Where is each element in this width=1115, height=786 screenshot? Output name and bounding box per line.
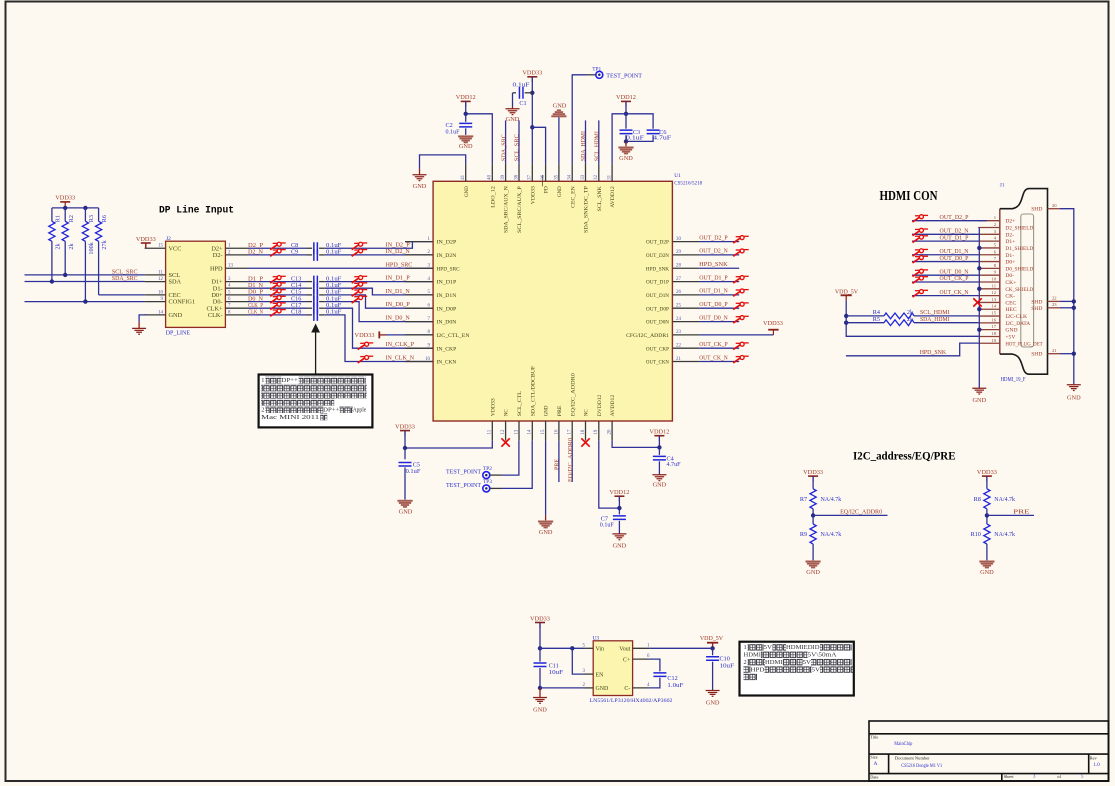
capacitor C14 0.1uF (series on D1_N)	[248, 287, 307, 289]
svg-text:AVDD12: AVDD12	[610, 186, 616, 208]
svg-text:SDA_SRC/AUX_N: SDA_SRC/AUX_N	[504, 186, 510, 233]
pin 6 D1- (J1)	[978, 254, 1000, 256]
svg-text:VDD33: VDD33	[977, 469, 997, 476]
junction shield pin8	[977, 266, 981, 270]
svg-text:11: 11	[158, 270, 163, 275]
svg-text:OUT_CK_P: OUT_CK_P	[699, 341, 728, 348]
diff-pair mark OUT_D2_P	[733, 236, 749, 243]
capacitor C7 0.1uF	[618, 508, 620, 514]
svg-text:SHD: SHD	[1031, 207, 1042, 213]
pin 6 D0- (J2 right)	[225, 301, 248, 303]
svg-text:U3: U3	[593, 636, 600, 642]
capacitor C11 10uF	[539, 648, 541, 661]
diff-pair mark OUT_D1_P	[733, 276, 749, 283]
junction rail-R3	[83, 206, 87, 210]
pin 39 SDA_SRC/AUX_N (U1 top)	[505, 164, 507, 182]
svg-text:R9: R9	[800, 531, 807, 538]
pin 6 C+	[633, 658, 650, 660]
svg-text:TEST_POINT: TEST_POINT	[606, 72, 642, 79]
pin 2 IN_D2N (U1 left)	[405, 254, 433, 256]
wire OUT_D2_P (to J1 pin1)	[912, 220, 987, 222]
svg-text:OUT_CKP: OUT_CKP	[646, 346, 669, 352]
svg-text:D2-: D2-	[1005, 232, 1014, 238]
svg-text:GND: GND	[553, 102, 567, 109]
svg-text:C18: C18	[291, 309, 301, 316]
pin 13 HPD (J2 right)	[225, 267, 248, 269]
ground (right shield bus)	[1073, 383, 1075, 385]
connector J1 HDMI_19_F outline	[999, 209, 1001, 354]
svg-text:10uF: 10uF	[720, 663, 735, 670]
svg-text:C-: C-	[624, 686, 630, 692]
junction R4	[844, 314, 848, 318]
svg-text:SDA_SNK/DC_TP: SDA_SNK/DC_TP	[584, 186, 590, 233]
power VDD33 (U3)	[535, 622, 545, 624]
pin 20 AVDD12 (U1 bottom)	[611, 421, 613, 441]
resistor R10 NA/4.7k	[984, 524, 990, 544]
svg-text:VDD33: VDD33	[530, 186, 536, 204]
pin 3 D2- (J1)	[978, 233, 1000, 235]
pin 2 D2_SHIELD (J1)	[978, 227, 1000, 229]
svg-text:HPD_SNK: HPD_SNK	[920, 349, 947, 356]
resistor R8 NA/4.7k	[986, 476, 988, 489]
svg-text:Date: Date	[870, 775, 878, 780]
diff-pair mark OUT_CK_P	[913, 276, 929, 283]
pin 5 D1_SHIELD (J1)	[978, 247, 1000, 249]
test point TP1	[572, 75, 586, 164]
diff-pair mark (IN_D2_N)	[352, 249, 368, 256]
wire EQ/I2C_ADDR0 (pin17)	[571, 441, 573, 482]
svg-text:Vin: Vin	[596, 647, 605, 653]
ground (U1 pin15)	[545, 441, 547, 516]
wire OUT_CK_N	[699, 361, 739, 363]
svg-text:0.1uF: 0.1uF	[600, 521, 615, 528]
svg-text:35: 35	[554, 174, 559, 179]
svg-text:GND: GND	[169, 312, 183, 319]
svg-text:SDA_SRC: SDA_SRC	[112, 275, 138, 282]
svg-text:GND: GND	[1005, 328, 1017, 334]
svg-text:13: 13	[228, 264, 233, 269]
svg-text:VDD33: VDD33	[803, 469, 823, 476]
svg-text:GND: GND	[459, 143, 473, 150]
svg-text:20: 20	[608, 429, 613, 434]
wire AVDD12 (pin20)	[612, 441, 659, 448]
pin 12 NC (U1 bottom)	[505, 421, 507, 441]
resistor R6 27k	[98, 208, 100, 221]
power VDD33 (U1 pin37/36)	[527, 76, 537, 78]
junction SDA_SRC-R1	[50, 279, 54, 283]
svg-text:VDD_5V: VDD_5V	[700, 635, 724, 642]
pin 15 I2C-CLK (J1)	[978, 315, 1000, 317]
junction C11 top	[538, 646, 542, 650]
pin 8 I2C_CTL_EN (U1 left)	[405, 334, 433, 336]
svg-text:IN_CKP: IN_CKP	[437, 346, 457, 352]
junction SHD22	[1072, 299, 1076, 303]
pin 11 SCL (J2 left)	[145, 274, 166, 276]
svg-text:IN_CKN: IN_CKN	[437, 360, 457, 366]
no-connect X (pin12)	[501, 438, 509, 446]
svg-text:CK+: CK+	[1005, 280, 1016, 286]
svg-text:OUT_D0_P: OUT_D0_P	[699, 301, 728, 308]
pin 13 SCL_CTL (U1 bottom)	[518, 421, 520, 441]
diff-pair mark (IN_D2_P)	[352, 242, 368, 249]
svg-text:OUT_D2_P: OUT_D2_P	[699, 234, 728, 241]
wire net CEC	[99, 294, 145, 296]
svg-text:22: 22	[1052, 296, 1057, 301]
connector J2 DP_LINE	[166, 241, 226, 327]
diff-pair mark OUT_D2_N	[733, 249, 749, 256]
svg-text:39: 39	[501, 174, 506, 179]
power VDD33 (R8)	[982, 475, 992, 477]
svg-text:D2+: D2+	[1005, 219, 1015, 225]
ground (C7)	[612, 534, 626, 540]
svg-text:GND: GND	[506, 116, 520, 123]
svg-text:23: 23	[676, 330, 681, 335]
svg-text:OUT_D2_P: OUT_D2_P	[940, 214, 969, 221]
wire VDD33 rail	[52, 207, 99, 209]
power VDD12 (C3/C6)	[621, 100, 631, 102]
IC U1 CS5216/5218	[433, 181, 672, 421]
svg-text:2: 2	[744, 659, 747, 666]
svg-text:14: 14	[158, 310, 163, 315]
svg-text:TP3: TP3	[483, 479, 492, 485]
pin 7 CLK+ (J2 right)	[225, 307, 248, 309]
svg-text:R7: R7	[800, 496, 807, 503]
svg-text:HOT_PLUG_DET: HOT_PLUG_DET	[1005, 341, 1043, 347]
svg-text:HDMIEDID: HDMIEDID	[786, 644, 820, 651]
capacitor C1 0.1uF	[512, 92, 514, 94]
pin 5 Vin	[584, 647, 594, 649]
svg-text:4.7uF: 4.7uF	[653, 135, 672, 142]
wire OUT_D1_N	[699, 294, 739, 296]
svg-text:J1: J1	[1000, 182, 1005, 188]
wire AVDD12 pin31	[612, 114, 626, 164]
wire to C6 top	[626, 114, 653, 129]
svg-text:SDA_HDMI: SDA_HDMI	[920, 316, 950, 323]
svg-text:GND: GND	[596, 686, 610, 692]
wire shield bus right	[1060, 209, 1074, 385]
svg-text:SCL_SRC/AUX_P: SCL_SRC/AUX_P	[517, 186, 523, 233]
svg-text:IN_D0P: IN_D0P	[437, 306, 457, 312]
svg-text:16: 16	[991, 317, 996, 322]
svg-text:OUT_CK_N: OUT_CK_N	[699, 354, 728, 361]
svg-text:HDMI_19_F: HDMI_19_F	[1001, 377, 1027, 383]
wire OUT_D1_P (to J1 pin4)	[912, 240, 978, 242]
svg-text:HDMI: HDMI	[765, 659, 783, 666]
wire R1 bottom lead	[51, 241, 53, 281]
pin 20 SHD (J1 right)	[1048, 208, 1060, 210]
wire IN_CLK_N	[325, 315, 433, 362]
wire OUT_D2_N (to J1 pin3)	[912, 233, 978, 235]
wire OUT_D0_P (to J1 pin7)	[912, 261, 978, 263]
svg-text:18: 18	[581, 429, 586, 434]
svg-text:DP_LINE: DP_LINE	[166, 329, 191, 336]
svg-text:CFG/I2C_ADDR1: CFG/I2C_ADDR1	[626, 333, 669, 339]
diff-pair mark (row)	[352, 282, 368, 289]
wire OUT_CK_P	[699, 347, 739, 349]
svg-text:VDD33: VDD33	[522, 70, 542, 77]
svg-text:IN_D1N: IN_D1N	[437, 293, 457, 299]
svg-text:HPD_SNK: HPD_SNK	[699, 261, 728, 268]
svg-text:TP1: TP1	[592, 66, 601, 72]
svg-text:VDD33: VDD33	[55, 195, 75, 202]
svg-text:GND: GND	[1067, 395, 1081, 402]
test point TP2	[502, 441, 519, 476]
svg-text:18: 18	[991, 331, 996, 336]
svg-text:IN_D1P: IN_D1P	[437, 280, 457, 286]
svg-text:22: 22	[676, 344, 681, 349]
svg-text:10: 10	[158, 290, 163, 295]
svg-text:GND: GND	[706, 700, 720, 707]
svg-text:23: 23	[1052, 302, 1057, 307]
svg-text:SDA_SRC: SDA_SRC	[501, 134, 507, 161]
svg-text:NA/4.7k: NA/4.7k	[994, 531, 1016, 538]
wire VDD12->LDO_12	[465, 101, 467, 113]
svg-text:2k: 2k	[55, 243, 62, 250]
capacitor C15 0.1uF (series on D0_P)	[248, 294, 307, 296]
svg-text:14: 14	[528, 429, 533, 434]
svg-text:NA/4.7k: NA/4.7k	[821, 531, 843, 538]
svg-text:IN_D1_P: IN_D1_P	[386, 275, 411, 282]
svg-text:31: 31	[608, 174, 613, 179]
capacitor C16 0.1uF (series on D0_N)	[248, 301, 307, 303]
svg-text:HPD_SRC: HPD_SRC	[386, 261, 413, 268]
svg-text:VDD12: VDD12	[616, 94, 636, 101]
svg-text:OUT_D1N: OUT_D1N	[646, 293, 669, 299]
wire OUT_D2_N	[699, 254, 739, 256]
pin 31 AVDD12 (U1 top)	[611, 164, 613, 182]
svg-text:CLK_N: CLK_N	[248, 309, 263, 316]
svg-text:OUT_CKN: OUT_CKN	[646, 360, 669, 366]
junction C1	[530, 91, 534, 95]
svg-text:I2C_DATA: I2C_DATA	[1005, 321, 1030, 327]
svg-text:VDD12: VDD12	[456, 94, 476, 101]
test point TP3	[502, 441, 533, 489]
diff-pair mark OUT_D0_N	[913, 269, 929, 276]
wire R6 bottom lead	[98, 241, 100, 295]
pin 35 GND (U1 top)	[558, 164, 560, 182]
svg-text:R3: R3	[88, 215, 95, 222]
svg-text:IN_CLK_P: IN_CLK_P	[386, 341, 415, 348]
svg-text:GND: GND	[544, 406, 550, 417]
svg-text:CLK-: CLK-	[208, 312, 223, 319]
pin 12 SDA (J2 left)	[145, 281, 166, 283]
junction shield pin14	[977, 307, 981, 311]
pin 17 GND (J1)	[978, 329, 1000, 331]
svg-text:HPD: HPD	[751, 666, 765, 673]
svg-text:IN_D2_N: IN_D2_N	[386, 248, 411, 255]
pin 4 D1- (J2 right)	[225, 287, 248, 289]
pin 1 D2+ (J2 right)	[225, 247, 248, 249]
svg-text:EQ/I2C_ADDR0: EQ/I2C_ADDR0	[570, 373, 576, 416]
svg-text:GND: GND	[413, 183, 427, 190]
capacitor C18 0.1uF (series on CLK_N)	[248, 314, 307, 316]
junction EQ/I2C_ADDR0	[811, 513, 815, 517]
pin 17 EQ/I2C_ADDR0 (U1 bottom)	[571, 421, 573, 441]
svg-text:CONFIG1: CONFIG1	[169, 299, 196, 306]
wire OUT_D1_P	[699, 281, 739, 283]
pin 32 SCL_SNK (U1 top)	[598, 164, 600, 182]
pin 10 IN_CKN (U1 left)	[405, 361, 433, 363]
junction C11 bottom	[538, 686, 542, 690]
arrow (note1 pointer)	[315, 330, 317, 375]
svg-text:1: 1	[744, 644, 747, 651]
capacitor C4 4.7uF	[658, 447, 660, 455]
diff-pair mark OUT_CK_P	[733, 342, 749, 349]
svg-text:IN_CLK_N: IN_CLK_N	[386, 355, 415, 362]
junction EN branch	[570, 646, 574, 650]
svg-text:DP++: DP++	[323, 406, 339, 413]
svg-text:11: 11	[992, 283, 997, 288]
diff-pair mark OUT_D1_P	[913, 235, 929, 242]
svg-text:NC: NC	[504, 409, 510, 416]
svg-text:TEST_POINT: TEST_POINT	[446, 469, 481, 476]
svg-text:OUT_D1P: OUT_D1P	[646, 280, 669, 286]
svg-text:GND: GND	[653, 482, 667, 489]
pin 1 D2+ (J1)	[978, 220, 1000, 222]
pin 1 IN_D2P (U1 left)	[405, 241, 433, 243]
wire R3 bottom lead	[84, 241, 86, 301]
svg-text:13: 13	[514, 429, 519, 434]
pin 10 CK+ (J1)	[978, 281, 1000, 283]
wire PD tie	[532, 127, 545, 163]
pin 26 OUT_D1N (U1 right)	[673, 294, 700, 296]
svg-text:EQ/I2C_ADDR0: EQ/I2C_ADDR0	[568, 438, 574, 482]
pin 40 LDO_12 (U1 top)	[491, 164, 493, 182]
svg-text:5V: 5V	[764, 644, 773, 651]
wire IN_CLK_P	[325, 308, 433, 348]
pin 8 D0_SHIELD (J1)	[978, 267, 1000, 269]
pin 3 EN	[584, 673, 594, 675]
junction rail-R2	[63, 206, 67, 210]
pin 19 HOT_PLUG_DET (J1)	[978, 342, 1000, 344]
wire IN_D0_P	[325, 295, 433, 308]
pin 7 D0+ (J1)	[978, 261, 1000, 263]
svg-text:CK_SHIELD: CK_SHIELD	[1005, 287, 1033, 293]
svg-text:SDA_CTL/DDCBUF: SDA_CTL/DDCBUF	[530, 366, 536, 416]
svg-text:GND: GND	[533, 707, 547, 714]
svg-text:D2_N: D2_N	[248, 249, 263, 256]
svg-text:13: 13	[991, 297, 996, 302]
svg-text:OUT_D1_N: OUT_D1_N	[699, 288, 728, 295]
svg-text:HEC: HEC	[1005, 307, 1016, 313]
wire GND pin2	[540, 687, 584, 689]
svg-text:D0+: D0+	[1005, 260, 1015, 266]
svg-text:20: 20	[1052, 203, 1057, 208]
svg-text:SHD: SHD	[1031, 306, 1042, 312]
svg-text:100k: 100k	[88, 241, 95, 254]
svg-text:GND: GND	[619, 155, 633, 162]
svg-text:1.0: 1.0	[1094, 763, 1101, 768]
wire pin8	[386, 334, 433, 336]
wire IN_D2_P	[325, 242, 413, 249]
svg-text:R10: R10	[971, 531, 981, 538]
junction C3 bottom	[624, 139, 628, 143]
ground (C4)	[652, 475, 666, 481]
wire Vout->VDD_5V	[649, 647, 713, 649]
wire node EQ/I2C_ADDR0	[812, 509, 814, 524]
junction C4	[657, 445, 661, 449]
title block	[869, 721, 1109, 781]
svg-text:GND: GND	[557, 186, 563, 197]
resistor R1 2k	[51, 208, 53, 221]
svg-text:27: 27	[676, 277, 681, 282]
pin 8 CLK- (J2 right)	[225, 314, 248, 316]
svg-text:Sheet: Sheet	[1004, 774, 1015, 779]
power VDD33 (J2 VCC)	[141, 242, 151, 244]
svg-text:GND: GND	[806, 569, 820, 576]
svg-text:I2C-CLK: I2C-CLK	[1005, 314, 1027, 320]
wire DVDD12 (pin19)	[599, 441, 620, 509]
svg-text:Document Number: Document Number	[895, 756, 930, 761]
svg-text:HPD_SNK: HPD_SNK	[646, 266, 670, 272]
svg-text:VDD33: VDD33	[395, 423, 415, 430]
svg-text:GND: GND	[539, 529, 553, 536]
pin 21 SHD (J1 right)	[1048, 353, 1060, 355]
svg-text:D2-: D2-	[213, 252, 223, 259]
junction SHD21	[1072, 352, 1076, 356]
junction CONFIG1-R3	[83, 299, 87, 303]
svg-text:OUT_D0P: OUT_D0P	[646, 306, 669, 312]
junction R5	[844, 321, 848, 325]
junction C3 top	[624, 112, 628, 116]
svg-text:Size: Size	[870, 755, 877, 760]
svg-text:IN_D0_P: IN_D0_P	[386, 301, 411, 308]
svg-text:41: 41	[461, 174, 466, 179]
power VDD12 (C4)	[654, 435, 664, 437]
pin 2 GND	[584, 687, 594, 689]
pin 2 D2- (J2 right)	[225, 254, 248, 256]
svg-text:OUT_D0N: OUT_D0N	[646, 320, 669, 326]
resistor R2 2k	[64, 208, 66, 221]
pin 23 CFG/I2C_ADDR1 (U1 right)	[673, 334, 700, 336]
wire HPD_SNK	[846, 343, 979, 356]
svg-text:19: 19	[991, 338, 996, 343]
pin 4 IN_D1P (U1 left)	[405, 281, 433, 283]
pin 18 +5V (J1)	[978, 335, 1000, 337]
wire SCL_HDMI (pin32)	[598, 120, 600, 163]
diff-pair mark OUT_D2_P	[913, 215, 929, 222]
junction shield pin17	[977, 327, 981, 331]
diff-pair mark OUT_CK_N	[913, 290, 929, 297]
diff-pair mark OUT_D0_N	[733, 316, 749, 323]
svg-text:2k: 2k	[68, 243, 75, 250]
pin 9 CONFIG1 (J2 left)	[145, 301, 166, 303]
wire OUT_D1_N (to J1 pin6)	[912, 254, 978, 256]
svg-text:HPD: HPD	[210, 265, 223, 272]
svg-text:19: 19	[594, 429, 599, 434]
svg-text:D2_SHIELD: D2_SHIELD	[1005, 226, 1033, 232]
svg-text:IN_D2N: IN_D2N	[437, 253, 457, 259]
svg-text:SCL_SNK: SCL_SNK	[597, 185, 603, 211]
wire HPD_SNK	[699, 267, 739, 269]
pin 12 CK- (J1)	[978, 295, 1000, 297]
svg-text:0.1uF: 0.1uF	[626, 135, 645, 142]
power VDD12 (C2)	[461, 100, 471, 102]
svg-text:17: 17	[568, 429, 573, 434]
svg-text:SCL_SRC: SCL_SRC	[515, 134, 521, 161]
diff-pair mark (IN_CLK_N)	[358, 356, 374, 363]
svg-text:10uF: 10uF	[549, 669, 564, 676]
svg-text:VDD12: VDD12	[649, 429, 669, 436]
svg-text:VDD_5V: VDD_5V	[835, 288, 859, 295]
wire IN_D1_P	[325, 281, 433, 283]
pin 41 GND (U1 top)	[465, 164, 467, 182]
svg-text:2: 2	[261, 406, 264, 413]
svg-text:15: 15	[991, 311, 996, 316]
svg-text:28: 28	[676, 264, 681, 269]
svg-text:D0_SHIELD: D0_SHIELD	[1005, 266, 1033, 272]
pin 38 SCL_SRC/AUX_P (U1 top)	[518, 164, 520, 182]
